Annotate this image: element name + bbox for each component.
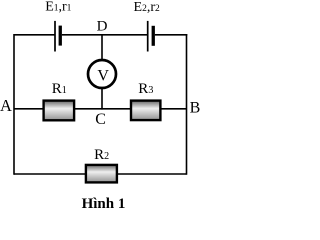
wire top-middle segment — [62, 34, 148, 36]
svg-text:V: V — [97, 68, 109, 85]
resistor R2 — [86, 165, 117, 183]
svg-text:E2,r2: E2,r2 — [134, 0, 160, 15]
wire top-right segment — [155, 34, 187, 36]
svg-text:R1: R1 — [52, 81, 67, 97]
wire middle-right segment (R3 to B) — [160, 108, 186, 110]
svg-text:B: B — [190, 99, 201, 116]
svg-text:D: D — [97, 19, 108, 35]
wire bottom-right segment — [117, 173, 187, 175]
svg-text:Hình 1: Hình 1 — [82, 196, 126, 212]
wire right vertical — [186, 34, 188, 175]
battery E2,r2 — [148, 21, 155, 52]
wire bottom-left segment — [14, 173, 86, 175]
wire left vertical — [13, 34, 15, 175]
svg-text:E1,r1: E1,r1 — [45, 0, 71, 15]
svg-text:R3: R3 — [138, 81, 153, 97]
resistor R1 — [44, 101, 75, 121]
wire D to voltmeter — [101, 35, 103, 60]
wire top-left segment — [14, 34, 55, 36]
svg-text:R2: R2 — [94, 147, 109, 163]
battery E1,r1 — [55, 21, 62, 52]
svg-text:A: A — [0, 96, 12, 115]
wire middle-center segment (R1 to R3 through C) — [75, 108, 131, 110]
wire middle-left segment (A to R1) — [14, 108, 44, 110]
wire voltmeter to node C — [101, 88, 103, 110]
voltmeter U1 circle — [88, 60, 116, 88]
resistor R3 — [131, 101, 160, 121]
svg-text:C: C — [95, 111, 106, 128]
